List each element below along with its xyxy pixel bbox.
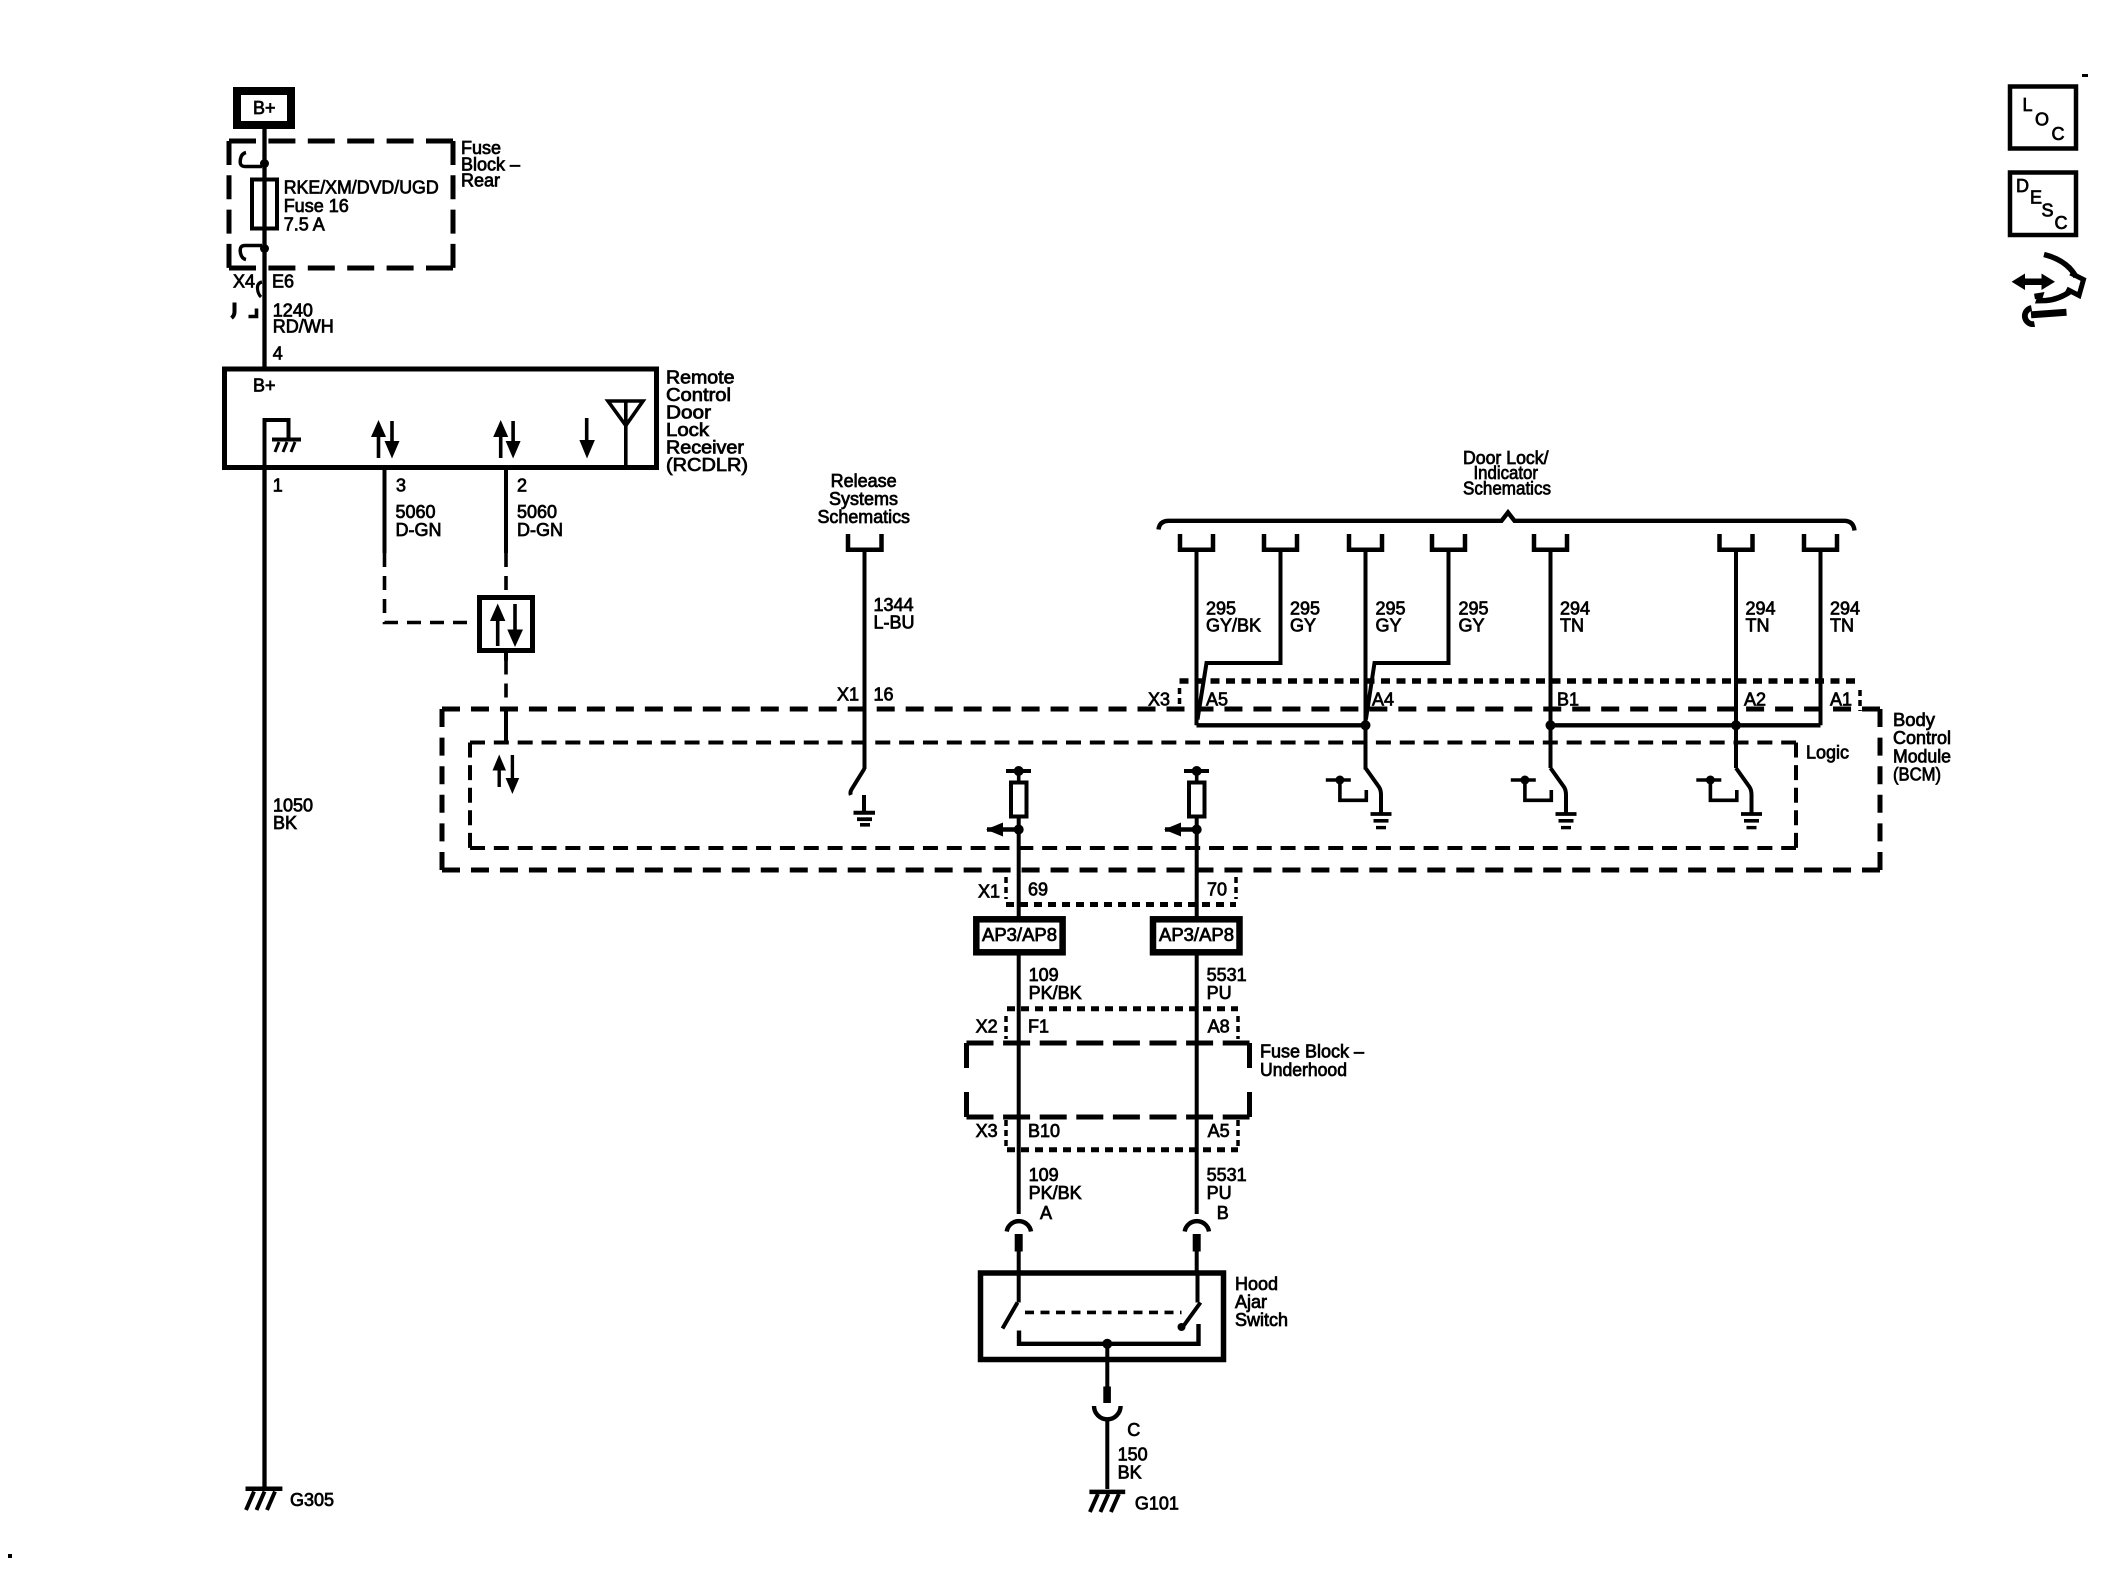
svg-text:GY: GY: [1376, 616, 1402, 636]
svg-text:Systems: Systems: [829, 489, 898, 509]
svg-text:X3: X3: [976, 1121, 998, 1141]
svg-text:Logic: Logic: [1806, 743, 1849, 763]
svg-text:B: B: [1217, 1203, 1229, 1223]
svg-text:Control: Control: [1893, 728, 1951, 748]
svg-text:A8: A8: [1208, 1017, 1230, 1037]
svg-text:E: E: [2030, 188, 2042, 208]
svg-text:AP3/AP8: AP3/AP8: [1159, 925, 1234, 945]
svg-text:Fuse Block –: Fuse Block –: [1260, 1042, 1364, 1062]
svg-text:X2: X2: [976, 1017, 998, 1037]
svg-text:5531: 5531: [1207, 965, 1247, 985]
svg-text:X1: X1: [978, 882, 1000, 902]
svg-text:X4: X4: [233, 272, 255, 292]
svg-text:D-GN: D-GN: [517, 520, 563, 540]
svg-text:RD/WH: RD/WH: [273, 317, 334, 337]
svg-text:5060: 5060: [517, 502, 557, 522]
svg-text:G101: G101: [1135, 1494, 1179, 1514]
svg-text:BK: BK: [273, 813, 297, 833]
svg-text:Fuse 16: Fuse 16: [284, 196, 349, 216]
svg-text:Underhood: Underhood: [1260, 1060, 1347, 1080]
svg-text:Schematics: Schematics: [1463, 478, 1551, 498]
svg-text:2: 2: [517, 475, 527, 495]
svg-text:GY: GY: [1290, 616, 1316, 636]
svg-text:Rear: Rear: [461, 171, 500, 191]
svg-text:TN: TN: [1560, 616, 1584, 636]
svg-text:B+: B+: [253, 376, 276, 396]
svg-text:F1: F1: [1028, 1017, 1049, 1037]
svg-text:Switch: Switch: [1235, 1310, 1288, 1330]
svg-text:Schematics: Schematics: [818, 507, 911, 527]
svg-text:5060: 5060: [396, 502, 436, 522]
svg-text:1: 1: [273, 475, 283, 495]
svg-text:69: 69: [1028, 880, 1048, 900]
svg-text:109: 109: [1029, 965, 1059, 985]
svg-text:GY/BK: GY/BK: [1206, 616, 1261, 636]
svg-text:A5: A5: [1208, 1121, 1230, 1141]
svg-text:Hood: Hood: [1235, 1274, 1278, 1294]
svg-text:3: 3: [396, 475, 406, 495]
svg-text:G305: G305: [290, 1490, 334, 1510]
svg-text:109: 109: [1029, 1165, 1059, 1185]
svg-text:(RCDLR): (RCDLR): [666, 455, 748, 475]
svg-text:70: 70: [1207, 880, 1227, 900]
svg-text:A: A: [1040, 1203, 1052, 1223]
svg-text:C: C: [2052, 124, 2065, 144]
svg-text:7.5 A: 7.5 A: [284, 214, 325, 234]
svg-text:B10: B10: [1028, 1121, 1060, 1141]
svg-text:O: O: [2035, 110, 2049, 130]
svg-text:Release: Release: [831, 471, 897, 491]
svg-text:(BCM): (BCM): [1893, 765, 1941, 785]
svg-text:X1: X1: [837, 685, 859, 705]
svg-text:PK/BK: PK/BK: [1029, 983, 1082, 1003]
svg-text:RKE/XM/DVD/UGD: RKE/XM/DVD/UGD: [284, 177, 439, 197]
svg-text:Module: Module: [1893, 746, 1951, 766]
svg-text:PK/BK: PK/BK: [1029, 1183, 1082, 1203]
svg-text:L: L: [2023, 95, 2033, 115]
svg-text:Ajar: Ajar: [1235, 1292, 1267, 1312]
svg-text:GY: GY: [1459, 616, 1485, 636]
svg-text:S: S: [2042, 201, 2054, 221]
svg-text:AP3/AP8: AP3/AP8: [982, 925, 1057, 945]
svg-text:BK: BK: [1118, 1463, 1142, 1483]
svg-text:16: 16: [874, 685, 894, 705]
svg-text:Body: Body: [1893, 710, 1935, 730]
svg-text:150: 150: [1118, 1445, 1148, 1465]
svg-text:5531: 5531: [1207, 1165, 1247, 1185]
svg-text:B+: B+: [253, 98, 276, 118]
svg-text:E6: E6: [272, 272, 294, 292]
svg-text:PU: PU: [1207, 983, 1232, 1003]
svg-text:D: D: [2016, 176, 2029, 196]
svg-text:PU: PU: [1207, 1183, 1232, 1203]
svg-text:L-BU: L-BU: [874, 613, 915, 633]
svg-text:TN: TN: [1746, 616, 1770, 636]
svg-text:C: C: [2055, 213, 2068, 233]
svg-text:TN: TN: [1830, 616, 1854, 636]
svg-text:4: 4: [273, 343, 283, 363]
svg-text:D-GN: D-GN: [396, 520, 442, 540]
svg-text:C: C: [1127, 1420, 1140, 1440]
